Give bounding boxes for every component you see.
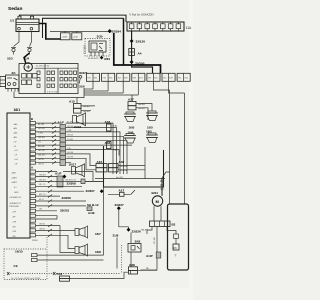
svg-text:A1/P: A1/P bbox=[146, 254, 153, 258]
connector A33 upper bbox=[105, 120, 119, 131]
svg-text:VO-SB: VO-SB bbox=[67, 139, 74, 141]
radio unit 16/1 bbox=[7, 108, 30, 238]
svg-text:VO: VO bbox=[38, 141, 41, 143]
svg-text:16/8: 16/8 bbox=[95, 250, 101, 254]
svg-text:+RR: +RR bbox=[12, 221, 17, 223]
svg-text:3/62: 3/62 bbox=[135, 239, 141, 243]
wire: battery heavy cable bbox=[39, 24, 61, 40]
crossing arrows group A bbox=[48, 170, 52, 237]
wire labels group A bbox=[39, 174, 77, 230]
pin group B bbox=[30, 117, 36, 164]
svg-text:BL-SB: BL-SB bbox=[38, 124, 45, 126]
svg-text:GR-SB: GR-SB bbox=[38, 150, 45, 152]
wire: feed to +15 tags bbox=[50, 30, 108, 32]
antenna motor B/24 bbox=[152, 191, 163, 206]
svg-text:GN-SB: GN-SB bbox=[83, 111, 90, 113]
svg-text:Ch. 19 2x(4+25)W 2x(4+25)W: Ch. 19 2x(4+25)W 2x(4+25)W bbox=[11, 278, 41, 280]
svg-text:A37: A37 bbox=[128, 98, 134, 102]
svg-text:B: B bbox=[31, 117, 33, 121]
speaker 16/5 front left bbox=[124, 112, 136, 130]
wires group A rows bbox=[36, 172, 104, 253]
pin labels group A (left, inside box) bbox=[9, 171, 22, 238]
svg-text:GR-SB: GR-SB bbox=[67, 152, 74, 154]
svg-text:8/47: 8/47 bbox=[139, 77, 143, 79]
drop from row with nodes bbox=[132, 31, 153, 74]
svg-text:12/116-2: 12/116-2 bbox=[84, 44, 87, 54]
node 33/301 bbox=[60, 208, 70, 212]
relay 2/30 bbox=[85, 34, 110, 59]
node 33/227 bbox=[115, 203, 129, 227]
speaker 16/8 bbox=[75, 244, 101, 256]
svg-text:GN-SB: GN-SB bbox=[39, 179, 46, 181]
connector stub left of ignition bbox=[0, 77, 5, 87]
svg-text:+ANT: +ANT bbox=[11, 171, 17, 174]
wire labels group B (right) bbox=[38, 124, 45, 166]
svg-text:+ABₗ: +ABₗ bbox=[13, 132, 18, 135]
connector A33 lower bbox=[105, 141, 119, 152]
speaker 16/7 bbox=[75, 226, 101, 238]
unit 16/15 dotted box C9 bbox=[4, 249, 104, 280]
wire bundle under 7/xx row bbox=[14, 81, 185, 204]
svg-text:GN-SB: GN-SB bbox=[67, 135, 74, 137]
main run from fuse area bbox=[14, 92, 84, 98]
wires below B2 bbox=[147, 227, 157, 253]
svg-text:A1/F: A1/F bbox=[58, 121, 65, 125]
heavy feed down from 33/294 bbox=[114, 33, 161, 74]
svg-text:VO-SB: VO-SB bbox=[154, 237, 156, 244]
speaker 15/5 front right bbox=[146, 111, 158, 130]
tag +15/1 bbox=[61, 33, 71, 40]
svg-text:GR-SB: GR-SB bbox=[38, 128, 45, 130]
battery 1/1 bbox=[10, 16, 39, 31]
svg-text:GR-W: GR-W bbox=[39, 224, 45, 226]
connector A15 lower bbox=[96, 160, 107, 172]
svg-text:B2: B2 bbox=[172, 222, 176, 226]
svg-text:A4: A4 bbox=[138, 51, 142, 55]
svg-text:11A: 11A bbox=[186, 26, 193, 30]
svg-text:A15: A15 bbox=[69, 99, 75, 103]
svg-text:-RR: -RR bbox=[12, 236, 16, 238]
long verticals to antenna area bbox=[169, 90, 171, 204]
svg-text:GN-SB: GN-SB bbox=[38, 137, 45, 139]
svg-text:33/301: 33/301 bbox=[60, 208, 70, 212]
svg-text:GN-SB: GN-SB bbox=[121, 166, 128, 168]
svg-text:7/46: 7/46 bbox=[102, 77, 106, 79]
svg-text:33/295: 33/295 bbox=[135, 62, 145, 66]
relay 3/62 bbox=[127, 227, 141, 267]
pin labels group B (left, inside box) bbox=[13, 123, 18, 166]
connector A4 bbox=[129, 49, 135, 56]
tag +15/2 bbox=[72, 33, 82, 40]
ground 31/4 bbox=[24, 32, 33, 61]
wire: second feed with corner bbox=[43, 18, 124, 38]
shield SH B-12 bbox=[87, 203, 99, 215]
svg-text:GN-SB: GN-SB bbox=[38, 155, 45, 157]
svg-text:GN-SB: GN-SB bbox=[121, 170, 128, 172]
svg-text:GN-W: GN-W bbox=[38, 163, 44, 165]
svg-text:A1/E: A1/E bbox=[88, 211, 95, 215]
connector A36 bbox=[109, 160, 146, 172]
wire to D6 bbox=[167, 227, 179, 258]
fuse box 11/1 bbox=[19, 64, 78, 94]
svg-text:C9: C9 bbox=[14, 264, 18, 268]
amplifier box bbox=[95, 146, 165, 187]
svg-text:33/126: 33/126 bbox=[136, 40, 146, 44]
svg-text:22/34: 22/34 bbox=[32, 240, 38, 242]
door boundary dotted bottom bbox=[7, 272, 120, 280]
crossing arrows group B bbox=[52, 122, 56, 164]
wire: battery to 11A row (top feed) bbox=[20, 15, 127, 22]
pin group A bbox=[30, 166, 36, 237]
node 33/307 bbox=[86, 189, 104, 193]
node 33/295 bbox=[130, 60, 134, 64]
svg-text:BL-R: BL-R bbox=[39, 199, 44, 201]
wire drops bbox=[92, 81, 94, 89]
svg-text:33/227: 33/227 bbox=[115, 203, 125, 207]
connector A38 bbox=[129, 263, 158, 274]
svg-text:A17: A17 bbox=[119, 188, 125, 192]
node 33/208 bbox=[62, 196, 72, 200]
svg-text:7/47: 7/47 bbox=[118, 77, 122, 79]
svg-text:?: ? bbox=[175, 253, 177, 257]
svg-text:Y-SB: Y-SB bbox=[67, 130, 72, 132]
ignition switch 3/1 box bbox=[6, 75, 20, 92]
svg-text:11 13 15 17 30: 11 13 15 17 30 bbox=[36, 66, 50, 68]
svg-text:33/308: 33/308 bbox=[67, 182, 77, 186]
node 33/294 bbox=[108, 29, 112, 33]
svg-text:GN-SB: GN-SB bbox=[138, 108, 145, 110]
svg-text:B/24: B/24 bbox=[152, 191, 159, 195]
svg-text:8/48: 8/48 bbox=[124, 77, 128, 79]
svg-text:16/1: 16/1 bbox=[14, 108, 21, 112]
svg-text:+BATT: +BATT bbox=[11, 176, 18, 179]
svg-text:GR-W: GR-W bbox=[38, 159, 44, 161]
wire down from amplifier bbox=[103, 187, 105, 255]
antenna mast bbox=[160, 172, 170, 196]
svg-text:30 85 86 87: 30 85 86 87 bbox=[88, 58, 99, 60]
svg-text:RD: RD bbox=[146, 268, 150, 270]
svg-text:1 3 5 7 9 11: 1 3 5 7 9 11 bbox=[47, 92, 58, 94]
svg-text:8/46: 8/46 bbox=[94, 77, 98, 79]
svg-text:+LR: +LR bbox=[14, 159, 18, 161]
svg-text:33/226: 33/226 bbox=[132, 229, 142, 233]
svg-text:33/307: 33/307 bbox=[86, 189, 96, 193]
svg-text:-LR: -LR bbox=[14, 163, 18, 165]
svg-text:+1GG: +1GG bbox=[61, 37, 67, 39]
connector A1/F upper bbox=[58, 121, 66, 166]
svg-text:+RR: +RR bbox=[12, 231, 17, 233]
svg-text:-RR: -RR bbox=[12, 226, 16, 228]
svg-text:SH B-12: SH B-12 bbox=[87, 203, 99, 207]
svg-text:+ABₗ: +ABₗ bbox=[13, 123, 18, 126]
svg-text:16/17: 16/17 bbox=[69, 162, 77, 166]
svg-text:16/15: 16/15 bbox=[15, 250, 23, 254]
speaker 18/5 bbox=[146, 129, 158, 142]
connector row 11A bbox=[127, 22, 192, 31]
svg-text:GN-W: GN-W bbox=[39, 229, 45, 231]
svg-text:7/50: 7/50 bbox=[163, 77, 167, 79]
svg-text:BN 1.5: BN 1.5 bbox=[39, 194, 46, 196]
alternator 6/1 bbox=[24, 53, 32, 71]
svg-text:+1Gx: +1Gx bbox=[73, 37, 79, 39]
svg-text:31/3: 31/3 bbox=[7, 56, 13, 60]
svg-text:31/6: 31/6 bbox=[79, 84, 85, 88]
svg-text:-ABₗ: -ABₗ bbox=[13, 127, 17, 130]
svg-text:+BATT: +BATT bbox=[11, 181, 18, 184]
svg-text:A1/F: A1/F bbox=[55, 172, 62, 176]
svg-text:2m GR: 2m GR bbox=[116, 177, 123, 179]
node 33/126 bbox=[130, 39, 134, 43]
node 3/64 bbox=[100, 56, 104, 60]
label 30/227 with ground 31/6 bbox=[79, 71, 88, 89]
horizontal runs bbox=[84, 88, 93, 90]
svg-text:16/18: 16/18 bbox=[74, 125, 82, 129]
svg-text:8/52: 8/52 bbox=[184, 77, 188, 79]
svg-text:GN-BR: GN-BR bbox=[39, 174, 46, 176]
svg-text:8/50: 8/50 bbox=[154, 77, 158, 79]
connector A43 bbox=[57, 272, 129, 281]
svg-text:33/208: 33/208 bbox=[62, 196, 72, 200]
svg-text:Y-SB: Y-SB bbox=[38, 133, 43, 135]
ground 31/3 bbox=[7, 32, 19, 61]
connector row 7/xx boxes bbox=[87, 73, 191, 81]
connector A1/P bbox=[141, 252, 161, 270]
node 33/308 bbox=[62, 175, 103, 186]
svg-text:7/49: 7/49 bbox=[148, 77, 152, 79]
svg-text:GND: GND bbox=[14, 192, 19, 194]
svg-text:RD 1.5: RD 1.5 bbox=[39, 184, 46, 186]
svg-text:Sedan: Sedan bbox=[8, 6, 22, 12]
connector A15 upper bbox=[69, 98, 95, 114]
svg-text:16/5: 16/5 bbox=[129, 126, 135, 130]
svg-text:8/49: 8/49 bbox=[169, 77, 173, 79]
svg-text:A: A bbox=[31, 166, 33, 170]
svg-text:PWR/GND: PWR/GND bbox=[9, 206, 20, 208]
connector A17 bbox=[108, 188, 135, 196]
svg-text:16/7: 16/7 bbox=[95, 232, 101, 236]
speaker 16/6 bbox=[124, 130, 136, 143]
svg-text:-SPEAKOUT: -SPEAKOUT bbox=[9, 202, 22, 205]
svg-text:GN-SB: GN-SB bbox=[138, 104, 145, 106]
svg-text:-ABₗ: -ABₗ bbox=[13, 136, 17, 139]
svg-text:7/51: 7/51 bbox=[178, 77, 182, 79]
connector A1/F lower bbox=[55, 172, 63, 187]
svg-text:8/45: 8/45 bbox=[109, 77, 113, 79]
svg-text:GN-BR: GN-BR bbox=[83, 106, 90, 108]
wires group B to right bbox=[36, 123, 133, 174]
svg-text:GR: GR bbox=[39, 209, 43, 211]
svg-text:+SPEAKOUT: +SPEAKOUT bbox=[9, 196, 22, 199]
svg-text:7/45: 7/45 bbox=[87, 77, 91, 79]
svg-text:GN-SB: GN-SB bbox=[67, 157, 74, 159]
svg-text:2/30: 2/30 bbox=[97, 34, 103, 38]
svg-text:*) Not for USA/CDN: *) Not for USA/CDN bbox=[129, 12, 154, 16]
svg-text:31/8: 31/8 bbox=[113, 234, 119, 238]
svg-text:Y-BL: Y-BL bbox=[67, 148, 71, 150]
svg-text:3/64: 3/64 bbox=[104, 57, 110, 61]
connector B2 bbox=[141, 206, 176, 231]
svg-text:3/1: 3/1 bbox=[12, 71, 17, 75]
door boundary dotted right bbox=[121, 245, 123, 274]
connector A37 bbox=[128, 95, 152, 120]
speaker 16/17 bbox=[69, 162, 85, 176]
label 31/8 bbox=[113, 234, 119, 269]
svg-text:A33: A33 bbox=[105, 120, 111, 124]
pillar outline box bbox=[168, 204, 189, 270]
svg-text:1/1: 1/1 bbox=[10, 18, 15, 22]
svg-text:A36: A36 bbox=[119, 160, 125, 164]
svg-text:BN-SB: BN-SB bbox=[38, 146, 45, 148]
horn 16/18 bbox=[73, 113, 86, 129]
svg-text:7/48: 7/48 bbox=[133, 77, 137, 79]
